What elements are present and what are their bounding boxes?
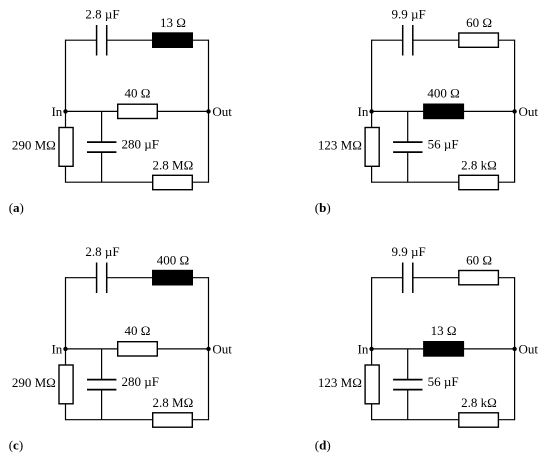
- node Out (b): [512, 109, 516, 113]
- svg-text:280 µF: 280 µF: [122, 137, 159, 152]
- wire d right vertical: [514, 277, 516, 420]
- capacitor 2.8 µF c left plate: [96, 263, 98, 294]
- wire a right vertical: [208, 40, 210, 183]
- capacitor 9.9 µF b left plate: [402, 25, 404, 56]
- resistor 60 Ω top (d): [459, 271, 499, 285]
- resistor 2.8 MΩ bottom (a): [153, 175, 193, 189]
- capacitor 56 µF b bottom plate: [393, 151, 422, 153]
- resistor 290 MΩ left (c): [59, 365, 73, 404]
- svg-text:(d): (d): [315, 438, 331, 453]
- wire c bottom horizontal: [66, 419, 209, 421]
- node In (b): [369, 109, 373, 113]
- node In (d): [369, 347, 373, 351]
- svg-text:123 MΩ: 123 MΩ: [318, 375, 362, 390]
- capacitor 9.9 µF d left plate: [402, 263, 404, 294]
- svg-text:Out: Out: [519, 104, 539, 119]
- wire a top-left segment: [66, 39, 97, 41]
- wire d capacitor-branch upper: [407, 349, 409, 380]
- resistor 13 Ω top (a): [153, 33, 193, 47]
- resistor 2.8 kΩ bottom (d): [459, 413, 499, 427]
- wire a bottom horizontal: [66, 181, 209, 183]
- capacitor 9.9 µF d right plate: [412, 263, 414, 294]
- svg-text:9.9 µF: 9.9 µF: [391, 7, 425, 22]
- svg-text:Out: Out: [519, 341, 539, 356]
- resistor 400 Ω middle (b): [424, 104, 464, 118]
- capacitor 2.8 µF c right plate: [106, 263, 108, 294]
- wire b capacitor-branch lower: [407, 152, 409, 182]
- svg-text:Out: Out: [212, 104, 232, 119]
- svg-text:290 MΩ: 290 MΩ: [12, 375, 56, 390]
- svg-text:290 MΩ: 290 MΩ: [12, 138, 56, 153]
- wire d bottom horizontal: [372, 419, 515, 421]
- svg-text:(c): (c): [9, 438, 23, 453]
- wire d top-left segment: [372, 277, 403, 279]
- capacitor 280 µF a top plate: [87, 141, 116, 143]
- svg-text:In: In: [358, 104, 369, 119]
- svg-text:2.8 µF: 2.8 µF: [85, 7, 119, 22]
- wire c capacitor-branch lower: [101, 390, 103, 420]
- resistor 60 Ω top (b): [459, 33, 499, 47]
- wire c top-left segment: [66, 277, 97, 279]
- resistor 13 Ω middle (d): [424, 342, 464, 356]
- resistor 123 MΩ left (d): [365, 365, 379, 404]
- svg-text:123 MΩ: 123 MΩ: [318, 138, 362, 153]
- resistor 40 Ω middle (a): [118, 104, 158, 118]
- resistor 290 MΩ left (a): [59, 128, 73, 167]
- svg-text:2.8 MΩ: 2.8 MΩ: [153, 395, 194, 410]
- resistor 40 Ω middle (c): [118, 342, 158, 356]
- svg-text:13 Ω: 13 Ω: [431, 323, 457, 338]
- capacitor 9.9 µF b right plate: [412, 25, 414, 56]
- svg-text:40 Ω: 40 Ω: [125, 86, 151, 101]
- capacitor 280 µF a bottom plate: [87, 151, 116, 153]
- node Out (c): [206, 347, 210, 351]
- wire c left vertical: [65, 277, 67, 420]
- svg-text:56 µF: 56 µF: [428, 137, 459, 152]
- wire d top-middle segment: [413, 277, 459, 279]
- svg-text:56 µF: 56 µF: [428, 374, 459, 389]
- svg-text:(b): (b): [315, 200, 331, 215]
- wire c top-middle segment: [107, 277, 153, 279]
- svg-text:13 Ω: 13 Ω: [160, 15, 186, 30]
- wire b left vertical: [371, 40, 373, 183]
- capacitor 56 µF d bottom plate: [393, 389, 422, 391]
- capacitor 2.8 µF a right plate: [106, 25, 108, 56]
- wire d middle horizontal In-Out: [372, 348, 515, 350]
- capacitor 280 µF c top plate: [87, 379, 116, 381]
- resistor 400 Ω top (c): [153, 271, 193, 285]
- svg-text:400 Ω: 400 Ω: [427, 86, 459, 101]
- wire b top-left segment: [372, 39, 403, 41]
- wire b top-middle segment: [413, 39, 459, 41]
- svg-text:2.8 kΩ: 2.8 kΩ: [461, 395, 497, 410]
- svg-text:60 Ω: 60 Ω: [466, 252, 492, 267]
- capacitor 2.8 µF a left plate: [96, 25, 98, 56]
- svg-text:(a): (a): [9, 200, 24, 215]
- resistor 2.8 MΩ bottom (c): [153, 413, 193, 427]
- capacitor 56 µF b top plate: [393, 141, 422, 143]
- svg-text:60 Ω: 60 Ω: [466, 15, 492, 30]
- wire a top-middle segment: [107, 39, 153, 41]
- wire b capacitor-branch upper: [407, 111, 409, 142]
- svg-text:2.8 MΩ: 2.8 MΩ: [153, 158, 194, 173]
- svg-text:2.8 kΩ: 2.8 kΩ: [461, 158, 497, 173]
- wire b top-right segment: [498, 39, 514, 41]
- wire c capacitor-branch upper: [101, 349, 103, 380]
- wire d left vertical: [371, 277, 373, 420]
- node Out (a): [206, 109, 210, 113]
- svg-text:In: In: [51, 104, 62, 119]
- wire b bottom horizontal: [372, 181, 515, 183]
- svg-text:Out: Out: [212, 341, 232, 356]
- resistor 2.8 kΩ bottom (b): [459, 175, 499, 189]
- wire c right vertical: [208, 277, 210, 420]
- svg-text:40 Ω: 40 Ω: [125, 323, 151, 338]
- svg-text:9.9 µF: 9.9 µF: [391, 244, 425, 259]
- svg-text:In: In: [358, 341, 369, 356]
- wire a top-right segment: [192, 39, 208, 41]
- capacitor 56 µF d top plate: [393, 379, 422, 381]
- node Out (d): [512, 347, 516, 351]
- resistor 123 MΩ left (b): [365, 128, 379, 167]
- svg-text:In: In: [51, 341, 62, 356]
- wire a capacitor-branch upper: [101, 111, 103, 142]
- svg-text:280 µF: 280 µF: [122, 374, 159, 389]
- wire b middle horizontal In-Out: [372, 110, 515, 112]
- wire a middle horizontal In-Out: [66, 110, 209, 112]
- capacitor 280 µF c bottom plate: [87, 389, 116, 391]
- svg-text:2.8 µF: 2.8 µF: [85, 244, 119, 259]
- svg-text:400 Ω: 400 Ω: [157, 252, 189, 267]
- node In (c): [63, 347, 67, 351]
- wire a left vertical: [65, 40, 67, 183]
- wire b right vertical: [514, 40, 516, 183]
- node In (a): [63, 109, 67, 113]
- wire c top-right segment: [192, 277, 208, 279]
- wire d capacitor-branch lower: [407, 390, 409, 420]
- wire c middle horizontal In-Out: [66, 348, 209, 350]
- wire d top-right segment: [498, 277, 514, 279]
- wire a capacitor-branch lower: [101, 152, 103, 182]
